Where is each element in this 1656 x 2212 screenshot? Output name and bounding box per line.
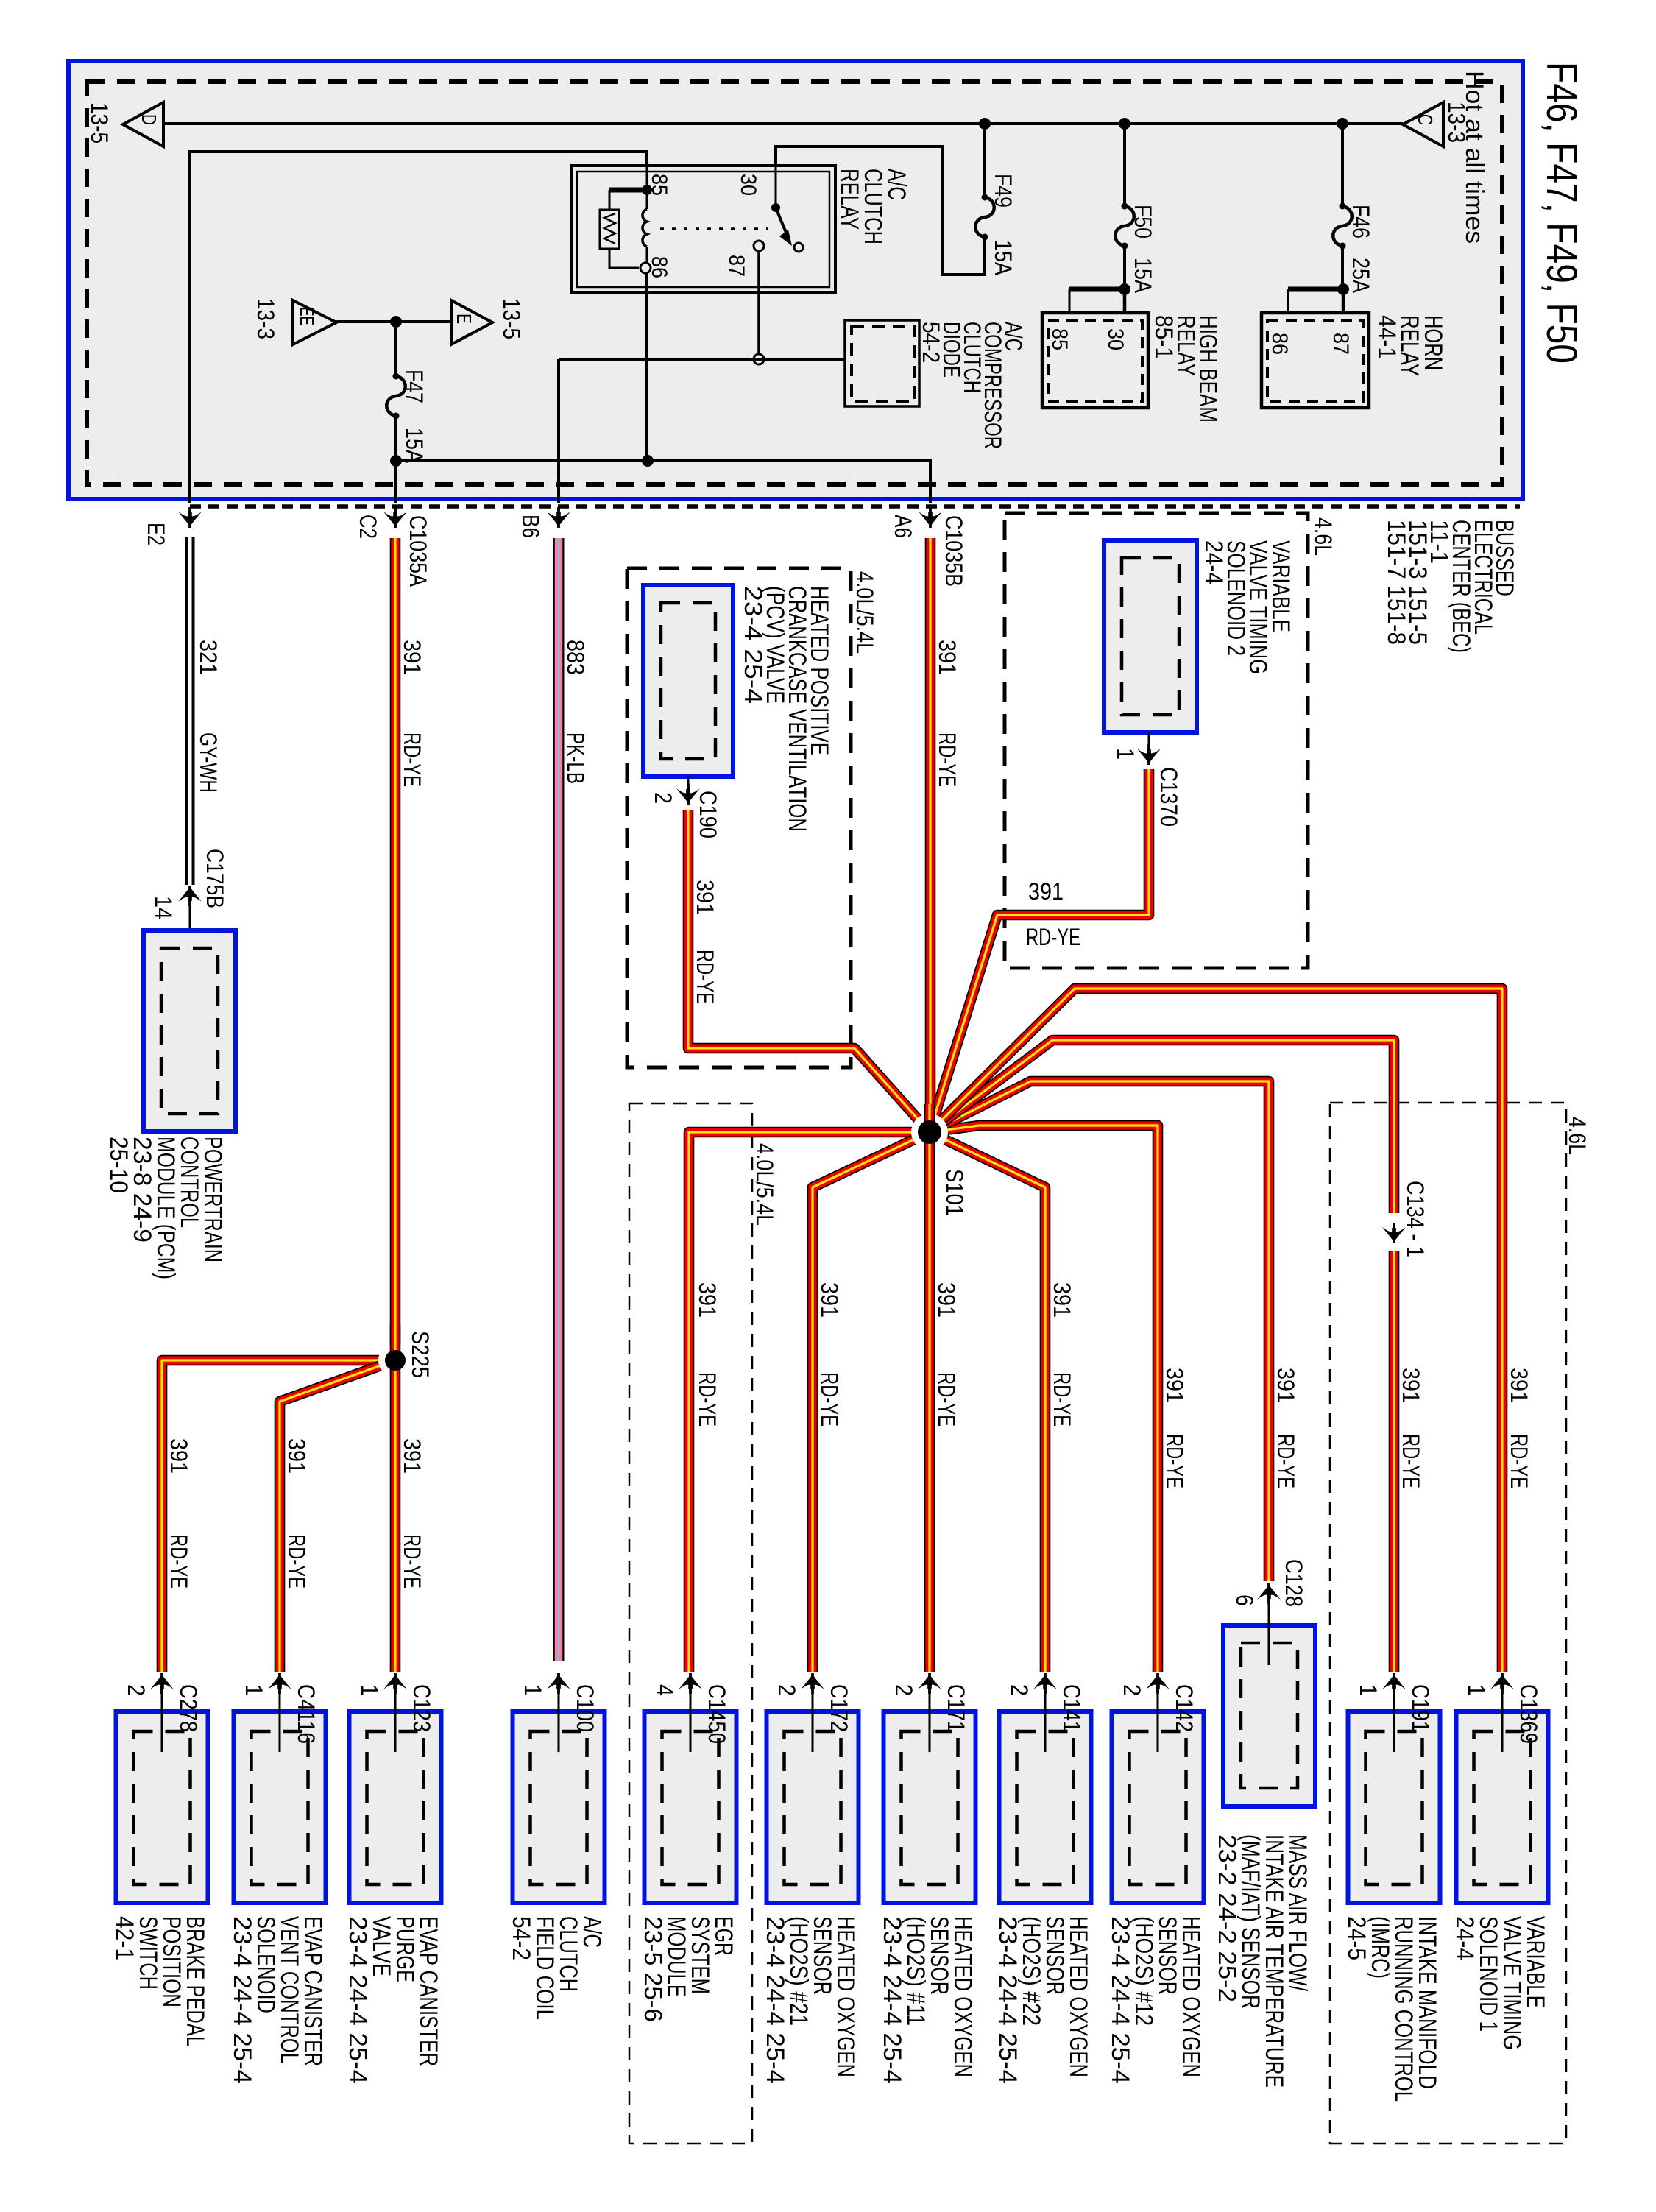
svg-text:1: 1 bbox=[241, 1684, 267, 1696]
wire 391 RD-YE S101 to C1369 bbox=[930, 989, 1502, 1672]
svg-text:RD-YE: RD-YE bbox=[692, 950, 718, 1004]
svg-text:RD-YE: RD-YE bbox=[816, 1372, 843, 1427]
svg-text:F47: F47 bbox=[401, 370, 428, 403]
svg-text:Hot at all times: Hot at all times bbox=[1460, 71, 1488, 244]
dashed box 4.6L IMRC/VVT1 region bbox=[1330, 1103, 1566, 2144]
svg-text:RD-YE: RD-YE bbox=[1273, 1434, 1299, 1488]
svg-text:S225: S225 bbox=[407, 1331, 434, 1378]
wire 391 RD-YE S225 to C123 bbox=[390, 1325, 401, 1672]
pin line and arrow C100 bbox=[558, 1689, 560, 1752]
svg-text:24-4: 24-4 bbox=[1200, 540, 1228, 584]
svg-text:23-4 24-4 25-4: 23-4 24-4 25-4 bbox=[344, 1916, 372, 2084]
pin line and arrow C172 bbox=[812, 1689, 814, 1752]
wire F47 output to C2 exit bbox=[394, 461, 397, 503]
connector box C4116 bbox=[234, 1711, 326, 1903]
svg-text:85: 85 bbox=[1047, 328, 1072, 350]
svg-text:391: 391 bbox=[399, 1438, 425, 1474]
svg-text:14: 14 bbox=[150, 896, 177, 919]
fuse F50 15A bbox=[1119, 118, 1130, 130]
connector C175B arrow bbox=[178, 886, 202, 906]
svg-text:15A: 15A bbox=[401, 428, 428, 464]
pin line and arrow C1369 bbox=[1501, 1689, 1504, 1752]
svg-text:391: 391 bbox=[694, 1282, 721, 1318]
connector box C1450 bbox=[645, 1711, 737, 1903]
svg-text:13-3: 13-3 bbox=[252, 298, 279, 339]
svg-text:C100: C100 bbox=[572, 1684, 598, 1732]
BEC inner dashed border bbox=[87, 82, 1502, 484]
junction node above fuse F47 bbox=[390, 316, 402, 328]
svg-text:1: 1 bbox=[1355, 1684, 1381, 1696]
connector box C171 bbox=[884, 1711, 976, 1903]
svg-text:4.0L/5.4L: 4.0L/5.4L bbox=[852, 571, 878, 654]
splice S225 halo bbox=[378, 1343, 412, 1377]
wire 321 GY-WH bbox=[185, 537, 188, 885]
svg-text:391: 391 bbox=[283, 1438, 310, 1474]
svg-text:E: E bbox=[453, 314, 475, 324]
svg-text:86: 86 bbox=[647, 256, 671, 278]
wire 391 RD-YE C1370 to S101 bbox=[930, 769, 1149, 1132]
high beam relay 85-1 bbox=[1042, 313, 1148, 408]
svg-text:883: 883 bbox=[562, 640, 589, 675]
svg-text:RD-YE: RD-YE bbox=[694, 1372, 721, 1427]
svg-text:391: 391 bbox=[934, 640, 960, 675]
wire 391 RD-YE through S101 bbox=[924, 1104, 935, 1163]
svg-text:C4116: C4116 bbox=[293, 1684, 319, 1744]
svg-text:2: 2 bbox=[650, 792, 676, 804]
svg-text:30: 30 bbox=[1103, 328, 1128, 350]
svg-text:C141: C141 bbox=[1058, 1684, 1085, 1732]
svg-text:391: 391 bbox=[1028, 878, 1064, 905]
svg-text:23-4 24-4 25-4: 23-4 24-4 25-4 bbox=[878, 1916, 906, 2084]
svg-text:C1035A: C1035A bbox=[405, 515, 431, 587]
svg-text:EE: EE bbox=[296, 307, 318, 325]
svg-text:42-1: 42-1 bbox=[110, 1916, 138, 1960]
pin line and arrow C171 bbox=[929, 1689, 931, 1752]
svg-text:23-5 25-6: 23-5 25-6 bbox=[639, 1916, 667, 2022]
svg-text:24-5: 24-5 bbox=[1342, 1916, 1370, 1960]
svg-text:391: 391 bbox=[166, 1438, 192, 1474]
wire 391 RD-YE S101 to C134-1 and C191 bbox=[930, 1040, 1394, 1213]
svg-text:RD-YE: RD-YE bbox=[933, 1372, 960, 1427]
off-page triangle E (13-5) bbox=[451, 300, 492, 344]
svg-text:23-2 24-2 25-2: 23-2 24-2 25-2 bbox=[1213, 1834, 1241, 2002]
svg-text:24-4: 24-4 bbox=[1451, 1916, 1479, 1960]
horn relay 44-1 bbox=[1262, 313, 1369, 408]
connector box C100 bbox=[513, 1711, 605, 1903]
svg-text:RELAY: RELAY bbox=[835, 169, 863, 230]
fuse F47 15A bbox=[394, 322, 397, 376]
svg-text:S101: S101 bbox=[941, 1169, 968, 1216]
connector box C278 bbox=[116, 1711, 208, 1903]
svg-text:4.6L: 4.6L bbox=[1310, 517, 1337, 556]
svg-text:A6: A6 bbox=[890, 515, 916, 538]
relay pin 87 terminal bbox=[754, 241, 764, 251]
svg-text:1: 1 bbox=[1463, 1684, 1490, 1696]
pin line and arrow C1450 bbox=[690, 1689, 692, 1752]
wire from PCM E2 to A/C clutch relay pin 85 bbox=[190, 152, 647, 503]
svg-text:391: 391 bbox=[816, 1282, 843, 1318]
svg-text:C123: C123 bbox=[408, 1684, 435, 1732]
pin line and arrow C191 bbox=[1393, 1689, 1395, 1752]
wire 391 RD-YE S101 to C171 bbox=[924, 1132, 935, 1672]
hot at all times bus wire bbox=[163, 122, 1403, 125]
svg-text:23-4 24-4 25-4: 23-4 24-4 25-4 bbox=[1106, 1916, 1134, 2084]
connector box variable valve timing solenoid 2 bbox=[1104, 540, 1197, 732]
connector box C141 bbox=[999, 1711, 1091, 1903]
connector C1370 arrow bbox=[1148, 732, 1150, 751]
connector box PCV valve bbox=[643, 585, 733, 777]
svg-text:C1450: C1450 bbox=[704, 1684, 730, 1744]
svg-text:B6: B6 bbox=[517, 515, 544, 538]
svg-text:391: 391 bbox=[1398, 1368, 1424, 1403]
exit A6 arrow bbox=[919, 507, 942, 528]
exit E2 arrow bbox=[178, 507, 202, 528]
relay pin 86 terminal bbox=[640, 263, 651, 273]
splice S101 bbox=[918, 1120, 941, 1144]
svg-text:15A: 15A bbox=[990, 240, 1016, 276]
connector box C1369 bbox=[1457, 1711, 1549, 1903]
svg-text:PK-LB: PK-LB bbox=[562, 732, 589, 784]
svg-text:23-4 25-4: 23-4 25-4 bbox=[739, 586, 767, 704]
svg-text:RD-YE: RD-YE bbox=[1026, 924, 1080, 950]
svg-text:C134 - 1: C134 - 1 bbox=[1402, 1181, 1429, 1257]
svg-text:2: 2 bbox=[123, 1684, 149, 1696]
svg-text:E2: E2 bbox=[143, 523, 169, 545]
svg-text:2: 2 bbox=[1119, 1684, 1145, 1696]
svg-text:C191: C191 bbox=[1407, 1684, 1434, 1732]
splice S225 bbox=[385, 1350, 406, 1371]
exit C2 arrow bbox=[383, 507, 407, 528]
svg-text:87: 87 bbox=[724, 255, 749, 277]
relay coil winding bbox=[646, 194, 648, 209]
relay pin 30 terminal and switch arm bbox=[775, 166, 777, 203]
dashed box 4.0L/5.4L EGR region bbox=[629, 1103, 752, 2144]
svg-text:6: 6 bbox=[1231, 1594, 1258, 1606]
wire pin 87 to B6 exit and diode bbox=[559, 358, 845, 361]
svg-text:RD-YE: RD-YE bbox=[399, 1534, 425, 1589]
svg-text:C128: C128 bbox=[1281, 1559, 1307, 1607]
svg-text:391: 391 bbox=[1049, 1282, 1075, 1318]
svg-text:F49: F49 bbox=[990, 174, 1016, 208]
connector box C172 bbox=[767, 1711, 859, 1903]
svg-text:23-4 24-4 25-4: 23-4 24-4 25-4 bbox=[761, 1916, 789, 2084]
svg-text:1: 1 bbox=[1112, 748, 1139, 760]
svg-text:391: 391 bbox=[1273, 1368, 1299, 1403]
svg-text:391: 391 bbox=[692, 880, 718, 915]
svg-text:44-1: 44-1 bbox=[1373, 315, 1401, 359]
svg-text:25A: 25A bbox=[1348, 258, 1374, 294]
relay pin 86 wire to F47 line bbox=[645, 273, 648, 461]
off-page triangle EE (13-3) bbox=[293, 300, 336, 344]
svg-text:85: 85 bbox=[647, 174, 671, 196]
svg-text:C172: C172 bbox=[826, 1684, 852, 1732]
svg-text:RD-YE: RD-YE bbox=[283, 1534, 310, 1589]
relay coil resistor bbox=[609, 190, 611, 210]
junction node relay 86 wire bbox=[642, 455, 654, 467]
svg-text:321: 321 bbox=[195, 640, 222, 675]
svg-text:C278: C278 bbox=[175, 1684, 202, 1732]
svg-text:2: 2 bbox=[774, 1684, 800, 1696]
svg-text:RD-YE: RD-YE bbox=[399, 732, 425, 787]
dashed box 4.0L/5.4L PCV region bbox=[627, 568, 851, 1067]
svg-text:RD-YE: RD-YE bbox=[1506, 1434, 1532, 1488]
svg-text:RD-YE: RD-YE bbox=[1049, 1372, 1075, 1427]
wire 391 RD-YE S101 to C142 bbox=[930, 1126, 1158, 1672]
wire 391 RD-YE S101 to C141 bbox=[930, 1132, 1045, 1672]
connector box C191 bbox=[1348, 1711, 1440, 1903]
junction node below fuse F47 bbox=[390, 455, 402, 467]
svg-text:391: 391 bbox=[933, 1282, 960, 1318]
fuse F49 15A bbox=[979, 118, 991, 130]
svg-text:85-1: 85-1 bbox=[1150, 315, 1178, 359]
svg-text:F46, F47, F49, F50: F46, F47, F49, F50 bbox=[1538, 62, 1585, 364]
high beam relay feed bracket bbox=[1119, 283, 1130, 295]
powertrain control module (PCM) bbox=[144, 930, 236, 1131]
pin line and arrow C123 bbox=[394, 1689, 397, 1752]
connector box MAF/IAT sensor bbox=[1223, 1625, 1315, 1806]
connector box C123 bbox=[350, 1711, 442, 1903]
svg-text:RD-YE: RD-YE bbox=[1161, 1434, 1188, 1488]
A/C compressor clutch diode 54-2 bbox=[845, 320, 919, 406]
svg-text:4.6L: 4.6L bbox=[1564, 1117, 1590, 1155]
relay actuation dotted line bbox=[660, 227, 768, 230]
wire EE to E bbox=[336, 320, 451, 323]
wire 391 RD-YE S101 to C128 MAF/IAT bbox=[930, 1081, 1269, 1581]
svg-text:C: C bbox=[1414, 114, 1437, 125]
A/C clutch relay bbox=[571, 166, 835, 293]
svg-text:C1369: C1369 bbox=[1515, 1684, 1542, 1744]
horn relay feed bracket bbox=[1337, 283, 1349, 295]
off-page triangle D (13-5) bbox=[123, 102, 163, 146]
svg-text:C1370: C1370 bbox=[1156, 767, 1182, 827]
svg-text:RD-YE: RD-YE bbox=[934, 732, 960, 787]
wire 391 RD-YE C1035B to splice S101 bbox=[925, 538, 936, 1132]
svg-text:86: 86 bbox=[1267, 333, 1292, 355]
off-page triangle C (13-3) bbox=[1403, 102, 1443, 146]
pin line and arrow C128 bbox=[1268, 1599, 1270, 1665]
svg-text:2: 2 bbox=[1006, 1684, 1033, 1696]
inline connector C134-1 arrow bbox=[1382, 1223, 1406, 1243]
svg-text:391: 391 bbox=[1161, 1368, 1188, 1403]
svg-text:23-4 24-4 25-4: 23-4 24-4 25-4 bbox=[228, 1916, 256, 2084]
svg-text:4.0L/5.4L: 4.0L/5.4L bbox=[751, 1143, 778, 1226]
svg-text:25-10: 25-10 bbox=[105, 1137, 132, 1193]
exit B6 arrow bbox=[547, 507, 570, 528]
relay pin 85 terminal bbox=[646, 166, 648, 185]
svg-text:2: 2 bbox=[891, 1684, 917, 1696]
fuse F46 25A bbox=[1337, 118, 1348, 130]
splice S101 halo bbox=[911, 1114, 948, 1151]
dashed line below BEC box bbox=[190, 504, 1520, 509]
svg-text:C190: C190 bbox=[695, 791, 721, 838]
svg-text:30: 30 bbox=[736, 174, 760, 196]
wire 391 RD-YE C1035A to splice S225 bbox=[390, 538, 401, 1358]
svg-text:15A: 15A bbox=[1130, 258, 1156, 294]
pin line and arrow C278 bbox=[161, 1689, 163, 1752]
svg-text:4: 4 bbox=[651, 1684, 678, 1696]
pin line and arrow C142 bbox=[1157, 1689, 1159, 1752]
wire 391 RD-YE S101 to C1450 bbox=[689, 1132, 930, 1672]
connector C190 arrow bbox=[687, 777, 690, 791]
svg-text:C1035B: C1035B bbox=[941, 515, 967, 587]
svg-text:13-5: 13-5 bbox=[86, 102, 113, 144]
svg-text:1: 1 bbox=[356, 1684, 383, 1696]
svg-text:151-7 151-8: 151-7 151-8 bbox=[1382, 520, 1410, 645]
svg-text:D: D bbox=[138, 114, 160, 125]
wire 883 PK-LB to C100 bbox=[553, 538, 565, 1661]
svg-text:C171: C171 bbox=[943, 1684, 969, 1732]
svg-text:F46: F46 bbox=[1348, 205, 1374, 238]
svg-text:391: 391 bbox=[399, 640, 425, 675]
pin line and arrow C4116 bbox=[279, 1689, 281, 1752]
svg-text:87: 87 bbox=[1328, 333, 1353, 355]
svg-text:13-5: 13-5 bbox=[498, 298, 525, 339]
svg-text:23-4 24-4 25-4: 23-4 24-4 25-4 bbox=[994, 1916, 1022, 2084]
connector box C142 bbox=[1112, 1711, 1204, 1903]
pin line and arrow C141 bbox=[1044, 1689, 1047, 1752]
svg-text:RD-YE: RD-YE bbox=[166, 1534, 192, 1589]
wire F47 output to A6 exit bbox=[396, 461, 930, 503]
svg-text:54-2: 54-2 bbox=[507, 1916, 535, 1960]
svg-text:C142: C142 bbox=[1171, 1684, 1197, 1732]
svg-text:391: 391 bbox=[1506, 1368, 1532, 1403]
svg-text:C175B: C175B bbox=[202, 849, 228, 908]
wire 391 RD-YE C190 to S101 bbox=[688, 810, 930, 1132]
bussed electrical center (BEC) outer blue box bbox=[68, 61, 1523, 499]
wire 391 RD-YE S225 to C4116 bbox=[280, 1360, 395, 1672]
dashed box 4.6L VVT solenoid 2 region bbox=[1005, 513, 1308, 968]
wire 391 RD-YE S225 to C278 bbox=[162, 1360, 395, 1672]
svg-text:54-2: 54-2 bbox=[918, 322, 944, 363]
wire 391 RD-YE S101 to C172 bbox=[813, 1132, 930, 1672]
svg-text:RD-YE: RD-YE bbox=[1398, 1434, 1424, 1488]
svg-text:GY-WH: GY-WH bbox=[195, 732, 222, 793]
svg-text:F50: F50 bbox=[1130, 205, 1156, 238]
svg-text:C2: C2 bbox=[355, 515, 381, 539]
svg-text:1: 1 bbox=[520, 1684, 546, 1696]
